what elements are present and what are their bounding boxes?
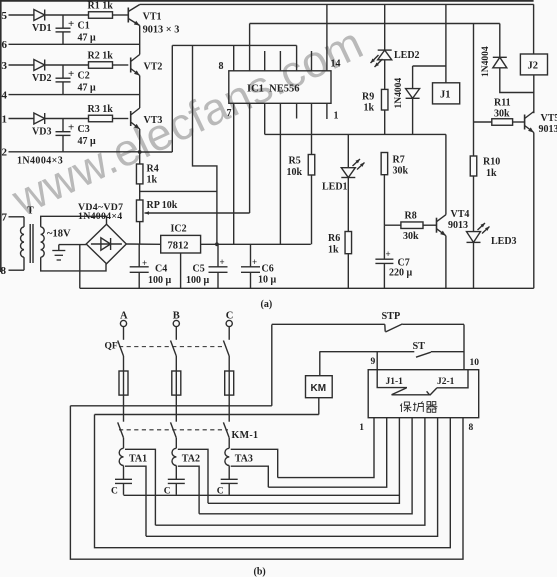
wire TA1 primary to capacitor	[123, 466, 125, 480]
diode VD3	[34, 113, 45, 124]
capacitor C3 47u	[62, 119, 64, 132]
svg-text:2: 2	[2, 147, 8, 159]
wire bridge to IC2 input	[126, 243, 160, 245]
svg-text:1: 1	[359, 423, 364, 433]
border top-left frame lines	[0, 0, 534, 2]
IC op-amp timer U1 IC1 NE556 box	[229, 71, 331, 104]
contact J1-1	[377, 370, 407, 388]
svg-text:R3 1k: R3 1k	[88, 104, 114, 115]
svg-text:VD1: VD1	[32, 23, 51, 34]
transistor VT2	[130, 58, 132, 73]
resistor R2 1k	[89, 62, 113, 69]
svg-text:7: 7	[227, 108, 232, 119]
wire rail y23.5	[250, 23, 500, 25]
wire rail y45.4	[172, 44, 296, 46]
svg-text:(b): (b)	[254, 567, 266, 577]
capacitor C phase TA2	[168, 478, 185, 480]
svg-text:VT3: VT3	[144, 115, 163, 126]
svg-text:1k: 1k	[364, 103, 375, 114]
dashed link QF	[119, 346, 226, 348]
transistor VT1	[127, 8, 129, 23]
wire vertical x192.5 timing net	[193, 45, 217, 244]
svg-text:J2: J2	[528, 61, 539, 72]
wire TA2 secondary top	[178, 449, 208, 503]
svg-text:R6: R6	[328, 233, 340, 244]
svg-text:6: 6	[2, 39, 8, 51]
svg-text:LED1: LED1	[322, 182, 348, 193]
wire RP-R4 tap y191.4	[140, 190, 217, 192]
contactor coil KM	[306, 376, 333, 398]
svg-text:220 μ: 220 μ	[389, 268, 413, 279]
contactor KM-1 pole C	[223, 422, 229, 437]
svg-text:J1: J1	[440, 90, 451, 101]
contactor KM-1 pole A	[118, 422, 124, 437]
current transformer TA3	[225, 448, 229, 457]
svg-text:9: 9	[371, 357, 376, 367]
svg-text:1: 1	[334, 111, 339, 122]
resistor R3 1k	[89, 115, 113, 122]
capacitor C1 47u	[62, 15, 64, 28]
svg-text:C: C	[111, 487, 118, 497]
LED LED3	[473, 176, 475, 232]
wire TA2 secondary bottom	[178, 466, 199, 514]
svg-text:R8: R8	[405, 211, 417, 222]
svg-text:R1 1k: R1 1k	[88, 1, 114, 12]
svg-text:100 μ: 100 μ	[148, 275, 172, 286]
IC regulator IC2 7812	[161, 235, 201, 253]
resistor R5 10k	[308, 155, 315, 176]
transistor VT4 9013	[436, 218, 438, 233]
svg-text:KM-1: KM-1	[232, 430, 259, 441]
ground	[59, 244, 86, 246]
breaker QF pole C	[228, 327, 230, 340]
wire IC2 ground pin	[180, 253, 182, 288]
svg-text:LED2: LED2	[394, 50, 420, 61]
svg-text:47 μ: 47 μ	[78, 83, 97, 94]
svg-text:+: +	[220, 257, 225, 267]
diode VD2	[34, 60, 45, 71]
svg-text:R10: R10	[483, 157, 500, 168]
contact J2-1	[437, 370, 468, 388]
wire TA3 secondary top	[231, 449, 278, 477]
IC1 top pin wires	[233, 45, 235, 70]
wire TA3 primary to capacitor	[228, 466, 230, 480]
wire control bus lower	[95, 414, 319, 416]
wire TA1 secondary bottom	[125, 466, 146, 536]
svg-text:R5: R5	[289, 156, 301, 167]
svg-text:VT5: VT5	[541, 113, 557, 124]
wire R8 node	[384, 224, 401, 226]
svg-text:VT4: VT4	[451, 209, 470, 220]
wire VT4 collector emitter	[445, 134, 447, 214]
svg-text:5: 5	[2, 10, 8, 22]
svg-text:RP 10k: RP 10k	[147, 200, 178, 211]
svg-text:KM: KM	[311, 383, 327, 394]
wire +12V output line	[201, 243, 311, 245]
svg-text:+: +	[68, 68, 74, 80]
wire terminal rows VD1	[9, 14, 34, 16]
svg-text:C1: C1	[78, 21, 90, 32]
svg-text:10 μ: 10 μ	[258, 275, 277, 286]
svg-text:14: 14	[331, 59, 341, 70]
svg-text:8: 8	[1, 265, 7, 277]
svg-text:9013: 9013	[448, 220, 468, 231]
svg-text:LED3: LED3	[491, 236, 517, 247]
svg-text:R9: R9	[362, 92, 374, 103]
node VT3 emitter junction	[138, 150, 142, 154]
svg-text:R4: R4	[147, 164, 159, 175]
svg-text:TA1: TA1	[129, 454, 147, 465]
svg-text:3: 3	[2, 60, 8, 72]
svg-text:1N4004: 1N4004	[481, 46, 491, 77]
wire terminal rows VD2	[9, 64, 34, 66]
capacitor C phase TA1	[115, 478, 132, 480]
svg-text:+: +	[68, 18, 74, 30]
svg-text:VD2: VD2	[32, 73, 51, 84]
resistor R10 1k	[473, 24, 475, 123]
svg-text:(a): (a)	[261, 299, 273, 310]
capacitor C6 10u	[250, 244, 252, 266]
svg-text:STP: STP	[382, 311, 401, 322]
svg-text:www.elecfans.com: www.elecfans.com	[4, 17, 371, 226]
svg-text:8: 8	[219, 61, 224, 72]
svg-text:C4: C4	[155, 264, 167, 275]
wire TA1 secondary top	[125, 449, 155, 525]
wire ground rail	[80, 287, 534, 289]
resistor R8 30k	[401, 222, 423, 229]
capacitor C7 220u	[383, 225, 385, 259]
svg-text:T: T	[27, 206, 34, 217]
svg-text:8: 8	[469, 423, 474, 433]
svg-text:C2: C2	[78, 71, 90, 82]
svg-text:1N4004×3: 1N4004×3	[17, 156, 63, 167]
wire KM bottom riser	[318, 398, 320, 415]
dashed link KM-1	[119, 429, 228, 431]
LED LED2	[384, 4, 386, 50]
svg-text:J2-1: J2-1	[437, 377, 455, 387]
wire STP riser	[271, 325, 273, 406]
wire TA1 bottom to terminal 6	[146, 418, 438, 537]
wire vertical x172.3	[171, 45, 173, 152]
node output junction	[215, 242, 219, 246]
wire TA2 top to terminal 3	[208, 418, 399, 504]
diode VD1	[34, 10, 45, 21]
svg-text:47 μ: 47 μ	[78, 33, 97, 44]
wire LED1 column drop	[347, 134, 349, 167]
breaker QF pole A	[123, 327, 125, 340]
transistor VT3	[130, 111, 132, 126]
resistor R1 1k	[89, 12, 113, 19]
transformer core	[29, 224, 31, 263]
svg-text:10: 10	[470, 358, 480, 368]
capacitor C4 100u	[138, 244, 140, 266]
svg-text:R2 1k: R2 1k	[88, 51, 114, 62]
wire top +V rail	[140, 3, 534, 5]
wire outer loop 2	[95, 415, 451, 548]
wire TA2 primary to capacitor	[175, 466, 177, 480]
transformer secondary	[41, 227, 44, 235]
svg-text:R11: R11	[494, 98, 511, 109]
svg-text:~18V: ~18V	[47, 229, 71, 240]
svg-text:+: +	[386, 249, 391, 259]
wire control bus upper	[70, 405, 271, 407]
wire VT5 emitter to rail	[533, 133, 535, 289]
wire TA1 top to terminal 5	[155, 418, 425, 526]
wire outer loop 1	[70, 406, 463, 559]
transistor VT5 9013	[524, 115, 526, 130]
fuse FU A	[119, 371, 128, 395]
resistor R6 1k	[347, 178, 349, 232]
svg-text:C3: C3	[78, 124, 90, 135]
svg-text:TA3: TA3	[235, 454, 253, 465]
resistor R9 1k	[381, 89, 388, 110]
svg-text:9013: 9013	[539, 124, 557, 135]
wire TA3 secondary bottom	[231, 466, 269, 487]
svg-text:QF: QF	[105, 342, 118, 352]
protection relay box	[368, 370, 479, 418]
svg-text:TA2: TA2	[182, 454, 200, 465]
current transformer TA2	[172, 448, 176, 457]
fuse FU B	[172, 371, 181, 395]
wire DC minus to rail	[79, 245, 81, 289]
svg-text:VT2: VT2	[144, 62, 163, 73]
svg-text:1k: 1k	[486, 168, 497, 179]
svg-text:IC2: IC2	[171, 224, 187, 235]
svg-text:30k: 30k	[393, 166, 409, 177]
wire TA2 bottom to terminal 4	[199, 418, 412, 514]
wire TA3 top to terminal 1	[278, 418, 374, 478]
wire J1 column	[445, 4, 447, 83]
capacitor C2 47u	[62, 65, 64, 78]
resistor R7 30k	[381, 153, 388, 175]
wire KM top riser	[319, 351, 321, 375]
current transformer TA1	[119, 448, 123, 457]
contactor KM-1 pole B	[171, 422, 177, 437]
svg-text:+: +	[252, 257, 257, 267]
svg-text:1k: 1k	[147, 175, 158, 186]
potentiometer RP 10k	[136, 200, 143, 222]
capacitor C phase TA3	[221, 478, 238, 480]
svg-text:J1-1: J1-1	[386, 377, 404, 387]
svg-text:47 μ: 47 μ	[78, 136, 97, 147]
IC1 bottom pin wires	[233, 103, 235, 244]
svg-text:1N4004: 1N4004	[394, 78, 404, 109]
svg-text:+: +	[142, 258, 147, 268]
diode 1N4004 flyback J1	[412, 66, 414, 89]
svg-text:30k: 30k	[494, 109, 510, 120]
svg-text:VD3: VD3	[32, 127, 51, 138]
capacitor C5 100u	[217, 244, 219, 266]
resistor R11 30k	[474, 121, 492, 123]
svg-text:C6: C6	[262, 264, 274, 275]
wire TA3 bottom to terminal 2	[268, 418, 386, 488]
svg-text:4: 4	[2, 89, 8, 101]
label baohuqi protector	[400, 402, 437, 413]
relay J1	[433, 83, 460, 104]
wire emitter chain bus	[139, 26, 141, 55]
breaker QF pole B	[175, 327, 177, 340]
svg-text:9013 × 3: 9013 × 3	[143, 25, 180, 36]
resistor R4 1k	[139, 152, 141, 164]
wire 1N4004 to J1 top	[413, 65, 446, 67]
svg-text:1N4004×4: 1N4004×4	[78, 211, 122, 222]
svg-text:+: +	[68, 122, 74, 134]
relay J2	[520, 54, 547, 75]
LED LED1	[341, 168, 355, 178]
svg-text:VT1: VT1	[143, 12, 162, 23]
svg-text:10k: 10k	[287, 167, 303, 178]
svg-text:30k: 30k	[403, 231, 419, 242]
svg-text:100 μ: 100 μ	[186, 275, 210, 286]
svg-text:C5: C5	[193, 264, 205, 275]
svg-text:ST: ST	[413, 341, 426, 352]
svg-text:7: 7	[2, 212, 8, 224]
svg-text:IC1 NE556: IC1 NE556	[247, 84, 300, 95]
svg-text:1k: 1k	[328, 245, 339, 256]
wire terminal rows VD3	[9, 118, 34, 120]
svg-text:1: 1	[2, 113, 8, 125]
wire capacitor star bus	[124, 494, 400, 496]
svg-text:7812: 7812	[168, 241, 189, 252]
wire bus y134.4 pin5 net	[265, 133, 446, 135]
wire J2 column	[533, 4, 535, 54]
fuse FU C	[225, 371, 234, 395]
diode 1N4004 flyback J2	[499, 24, 501, 58]
svg-text:R7: R7	[393, 155, 405, 166]
